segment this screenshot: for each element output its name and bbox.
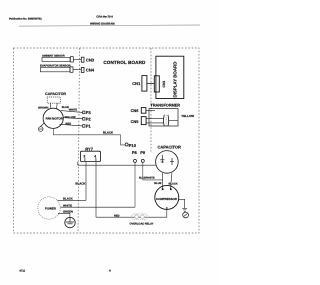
svg-text:GREEN: GREEN (63, 209, 73, 213)
fan motor ground (38, 123, 44, 132)
label BROWN (38, 106, 48, 109)
terminal P9 (140, 150, 146, 163)
svg-text:4: 4 (94, 155, 96, 159)
connector CN1 control board side (132, 76, 147, 92)
header title WIRING DIAGRAM (90, 21, 115, 25)
connector CN4 (81, 67, 95, 72)
svg-text:RED: RED (66, 123, 72, 126)
svg-text:EVAPORATOR SENSOR: EVAPORATOR SENSOR (40, 65, 71, 68)
unit enclosure dashed border (14, 48, 200, 233)
fan motor M1 (43, 108, 64, 128)
svg-text:OVERLOAD RELAY: OVERLOAD RELAY (130, 223, 154, 226)
svg-text:P10: P10 (129, 143, 137, 148)
svg-text:WHITE: WHITE (63, 203, 72, 207)
svg-text:3: 3 (83, 155, 85, 159)
svg-text:BROWN: BROWN (38, 106, 48, 109)
partition dashed line left/right sections (78, 48, 80, 233)
terminal P3 (83, 110, 92, 115)
wire P8 white to power cord (134, 162, 136, 207)
svg-text:P1: P1 (86, 124, 92, 129)
connector CN5 (131, 117, 147, 125)
partition dashed line display board section (150, 48, 152, 152)
wire capacitor black to compressor R (169, 173, 178, 189)
connector CN1 display board side (154, 76, 166, 92)
svg-text:8711: 8711 (20, 270, 26, 273)
relay RY7 (81, 147, 101, 162)
svg-text:FAN MOTOR: FAN MOTOR (46, 117, 64, 121)
wire RY7 pin4 to overload (95, 162, 97, 218)
wires CN5 to transformer (146, 119, 163, 123)
svg-text:WHITE: WHITE (69, 108, 78, 111)
wire fan motor black to P10 (53, 128, 125, 145)
terminal P8 (132, 150, 138, 163)
svg-text:WIRING DIAGRAM: WIRING DIAGRAM (90, 21, 115, 25)
terminal P10 (125, 143, 137, 148)
svg-text:CRA-Ha-73-9: CRA-Ha-73-9 (96, 16, 113, 19)
svg-text:CN5: CN5 (131, 119, 140, 124)
wires capacitor to fan motor (50, 103, 57, 109)
wire fan to P2 (yellow) (63, 116, 82, 119)
svg-text:4: 4 (109, 269, 111, 273)
header rule (19, 25, 200, 26)
terminal P1 (83, 124, 92, 129)
svg-text:RY7: RY7 (85, 147, 93, 152)
wire red RY7 to compressor C (96, 209, 167, 217)
wire power cord black (58, 196, 87, 200)
terminal P2 (83, 117, 92, 122)
svg-text:POWER: POWER (45, 206, 57, 210)
compressor M2 (155, 185, 179, 210)
svg-text:P9: P9 (140, 150, 146, 155)
svg-text:BLUE: BLUE (154, 182, 161, 185)
svg-text:DISPLAY BOARD: DISPLAY BOARD (173, 62, 178, 98)
wire power cord green (58, 209, 73, 217)
svg-text:YELLOW: YELLOW (65, 116, 77, 119)
display board (156, 56, 184, 98)
svg-text:CN1: CN1 (132, 81, 141, 86)
svg-text:P2: P2 (86, 117, 92, 122)
svg-text:BLACK: BLACK (169, 183, 178, 186)
capacitor C1 (fan) (45, 92, 66, 103)
footer page number (109, 269, 111, 273)
svg-text:RED: RED (114, 214, 120, 217)
svg-text:P3: P3 (86, 110, 92, 115)
wire evaporator sensor to CN4 (73, 69, 81, 71)
wire P9 blue/white to compressor S (139, 162, 163, 180)
wire RY7 to run capacitor (78, 162, 156, 166)
svg-text:CN3: CN3 (86, 57, 95, 62)
svg-text:CONTROL BOARD: CONTROL BOARD (103, 60, 146, 65)
evaporator sensor (40, 65, 73, 73)
overload relay OL1 (130, 214, 154, 226)
power cord ground (65, 217, 75, 227)
ambient sensor (42, 54, 73, 62)
header model number (96, 16, 113, 19)
wire capacitor blue to compressor S (154, 173, 162, 189)
compressor ground (179, 199, 189, 218)
svg-text:CN1: CN1 (162, 81, 166, 88)
power cord (38, 197, 60, 219)
footer date code (20, 270, 26, 273)
svg-text:CAPACITOR: CAPACITOR (158, 145, 182, 150)
wire ambient sensor to CN3 (73, 58, 81, 60)
control board U1 label (103, 60, 146, 65)
wire fan to P1 (red) (60, 123, 83, 126)
svg-text:CN4: CN4 (86, 68, 95, 73)
wire CN6 to transformer (146, 109, 155, 111)
svg-text:AMBIENT SENSOR: AMBIENT SENSOR (42, 54, 65, 57)
run capacitor C2 (156, 145, 181, 174)
svg-text:BLUE/WHITE: BLUE/WHITE (139, 176, 155, 179)
svg-text:CAPACITOR: CAPACITOR (45, 92, 66, 96)
wire fan to P3 (blue/white) (61, 106, 83, 112)
svg-text:P8: P8 (132, 150, 138, 155)
wire CN1 to CN1 (147, 82, 154, 84)
header publication number (9, 18, 42, 21)
label YELLOW (transformer lead) (181, 114, 194, 118)
transformer T1 (149, 104, 180, 127)
connector CN3 (81, 57, 95, 62)
svg-text:YELLOW: YELLOW (181, 114, 194, 118)
svg-text:CN6: CN6 (131, 108, 140, 113)
wire RY7 pin3 black to power cord (75, 162, 86, 201)
connector CN6 (131, 108, 146, 114)
svg-text:COMPRESSOR: COMPRESSOR (156, 197, 178, 201)
svg-text:Publication No. 5995545751: Publication No. 5995545751 (9, 18, 42, 21)
wire power cord white (60, 203, 135, 207)
svg-text:BLACK: BLACK (103, 131, 114, 135)
svg-text:TRANSFORMER: TRANSFORMER (151, 104, 181, 108)
svg-text:BLACK: BLACK (63, 196, 73, 200)
svg-text:BLACK: BLACK (75, 182, 86, 186)
